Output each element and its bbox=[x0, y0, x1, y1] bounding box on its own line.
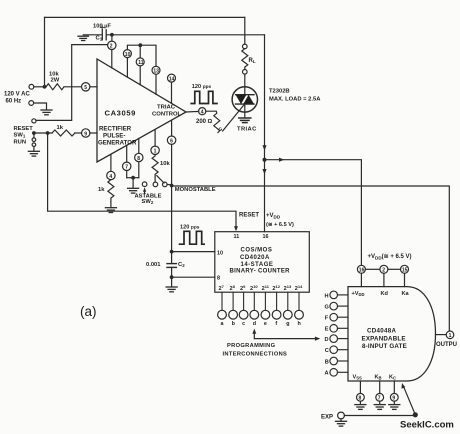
wire: pins 7-8 common bbox=[127, 177, 139, 179]
node: pin2 top junction bbox=[110, 33, 114, 37]
wire: EXP lead bbox=[344, 415, 413, 417]
svg-text:T2302B: T2302B bbox=[269, 89, 290, 95]
node: monostable junction bbox=[170, 184, 174, 188]
wire: pin 10 lead bbox=[172, 251, 215, 253]
svg-text:SeekIC.com: SeekIC.com bbox=[400, 419, 454, 430]
node: junction AC/top loop bbox=[43, 85, 47, 89]
svg-text:1k: 1k bbox=[57, 125, 64, 131]
svg-text:8-INPUT GATE: 8-INPUT GATE bbox=[362, 343, 407, 350]
ground: gate pin 9 bbox=[389, 405, 400, 410]
svg-text:4: 4 bbox=[109, 174, 112, 180]
triac T2302B bbox=[232, 87, 257, 112]
svg-text:G: G bbox=[219, 127, 223, 133]
node: pins 10-11-13 bus bbox=[138, 43, 142, 47]
svg-text:120 V AC: 120 V AC bbox=[4, 92, 30, 98]
triac MT1 bars bbox=[239, 118, 251, 123]
wire: reset line down and across bbox=[48, 133, 236, 228]
svg-text:1k: 1k bbox=[98, 187, 105, 193]
svg-text:CA3059: CA3059 bbox=[105, 109, 136, 118]
capacitor C2 0.001 bbox=[171, 252, 173, 264]
svg-text:120 pps: 120 pps bbox=[180, 225, 200, 231]
svg-text:C2: C2 bbox=[178, 262, 185, 268]
ground: pin 4 bbox=[105, 208, 116, 213]
svg-text:+VDD(≅ + 6.5 V): +VDD(≅ + 6.5 V) bbox=[368, 254, 412, 260]
svg-text:1: 1 bbox=[449, 333, 452, 339]
svg-text:9: 9 bbox=[84, 131, 87, 137]
waveform 120 pps (CA3059 output) bbox=[190, 91, 217, 103]
svg-text:+VDD: +VDD bbox=[352, 291, 365, 297]
svg-text:11: 11 bbox=[234, 234, 240, 240]
svg-text:G: G bbox=[325, 305, 329, 311]
wire: triac gate lead bbox=[223, 105, 245, 131]
switch SW2 astable bbox=[142, 182, 147, 187]
pin 4 (bottom) bbox=[107, 171, 115, 179]
wire: programming interconnection from d bbox=[252, 329, 256, 334]
svg-text:8: 8 bbox=[359, 396, 362, 402]
wire: pin 8 lead bbox=[172, 276, 215, 278]
ground: C2 bbox=[166, 287, 177, 292]
svg-text:EXP: EXP bbox=[321, 415, 333, 421]
svg-text:10: 10 bbox=[125, 52, 131, 58]
gate inputs H..A bbox=[330, 291, 348, 376]
svg-text:TRIAC: TRIAC bbox=[157, 105, 176, 111]
svg-text:TRIAC: TRIAC bbox=[237, 127, 257, 133]
pin 6 bbox=[167, 136, 175, 144]
svg-text:g: g bbox=[286, 321, 289, 327]
svg-text:10: 10 bbox=[217, 251, 223, 257]
svg-text:F: F bbox=[325, 316, 329, 322]
svg-text:e: e bbox=[264, 321, 267, 327]
svg-text:7: 7 bbox=[125, 165, 128, 171]
svg-text:0.001: 0.001 bbox=[146, 262, 161, 268]
svg-text:VSS: VSS bbox=[353, 375, 363, 381]
svg-text:CD4020A: CD4020A bbox=[240, 255, 270, 261]
svg-text:13: 13 bbox=[153, 69, 159, 75]
svg-text:f: f bbox=[275, 321, 277, 327]
terminal EXP bbox=[338, 412, 345, 419]
ground: EXP bbox=[336, 421, 347, 426]
IC U2 CD4020A counter box bbox=[215, 232, 309, 293]
svg-text:PULSE-: PULSE- bbox=[103, 133, 125, 140]
wire: 1k to pin 9 bbox=[75, 132, 82, 134]
svg-text:8: 8 bbox=[137, 156, 140, 162]
terminal: 120 V AC hot bbox=[29, 84, 34, 89]
svg-text:60 Hz: 60 Hz bbox=[6, 99, 22, 105]
svg-text:14: 14 bbox=[169, 76, 175, 82]
pin 14 bbox=[168, 74, 176, 82]
gate top supply circles 16 2 15 bbox=[357, 265, 365, 273]
svg-text:KB: KB bbox=[375, 375, 382, 381]
svg-text:(≅ + 6.5 V): (≅ + 6.5 V) bbox=[266, 222, 294, 228]
node: C2 top junction bbox=[170, 250, 174, 254]
resistor 1k (pin 9) bbox=[52, 130, 75, 136]
wire: right vertical down to RL bbox=[244, 17, 246, 44]
svg-text:MONOSTABLE: MONOSTABLE bbox=[175, 187, 216, 193]
pin 5 bbox=[82, 83, 90, 91]
svg-text:CD4048A: CD4048A bbox=[367, 328, 397, 335]
pin 2 bbox=[108, 41, 116, 49]
resistor 10k 2W bbox=[46, 84, 64, 90]
svg-text:4: 4 bbox=[201, 110, 204, 116]
pin 8 bbox=[135, 153, 143, 161]
svg-text:d: d bbox=[253, 321, 256, 327]
svg-text:16: 16 bbox=[263, 234, 269, 240]
wire: pin 6 down through monostable node to C2 node bbox=[171, 144, 173, 251]
svg-text:9: 9 bbox=[392, 396, 395, 402]
svg-text:100 μF: 100 μF bbox=[93, 24, 111, 30]
node: reset branch bbox=[46, 131, 50, 135]
svg-text:14-STAGE: 14-STAGE bbox=[241, 262, 274, 268]
switch SW1 pole node bbox=[32, 131, 36, 135]
capacitor C1 100uF bbox=[101, 30, 103, 40]
pin 11 bbox=[136, 58, 144, 66]
resistor 10k (pin 1) bbox=[152, 155, 158, 182]
op-amp U1 CA3059 triangle bbox=[97, 59, 186, 162]
svg-text:RECTIFIER: RECTIFIER bbox=[99, 126, 132, 133]
gate bottom pins 8 7 9 bbox=[359, 381, 361, 393]
svg-text:A: A bbox=[325, 371, 329, 377]
svg-text:Kd: Kd bbox=[381, 291, 389, 297]
svg-text:6: 6 bbox=[170, 139, 173, 145]
svg-text:BINARY- COUNTER: BINARY- COUNTER bbox=[230, 268, 291, 274]
svg-text:200 Ω: 200 Ω bbox=[196, 119, 213, 125]
svg-text:10k: 10k bbox=[160, 161, 170, 167]
svg-text:h: h bbox=[298, 321, 301, 327]
svg-text:16: 16 bbox=[359, 268, 365, 274]
svg-text:EXPANDABLE: EXPANDABLE bbox=[362, 335, 406, 342]
resistor 1k (pin 4) bbox=[108, 180, 114, 202]
pin 9 bbox=[82, 129, 90, 137]
IC U3 CD4048A expandable 8-input gate body bbox=[348, 287, 436, 381]
svg-text:B: B bbox=[325, 359, 329, 365]
svg-text:E: E bbox=[325, 327, 329, 333]
svg-text:8: 8 bbox=[217, 276, 220, 282]
svg-text:PROGRAMMING: PROGRAMMING bbox=[227, 343, 276, 349]
svg-text:2: 2 bbox=[110, 44, 113, 50]
wire: top horizontal loop bbox=[45, 16, 245, 18]
svg-text:D: D bbox=[325, 337, 329, 343]
svg-text:COS/MOS: COS/MOS bbox=[241, 248, 273, 254]
svg-text:RESET: RESET bbox=[239, 213, 259, 219]
svg-text:RESET: RESET bbox=[14, 126, 34, 132]
svg-text:C1: C1 bbox=[96, 36, 103, 42]
svg-text:1: 1 bbox=[154, 149, 157, 155]
switch SW1 upper contact bbox=[32, 119, 36, 123]
svg-text:MAX. LOAD = 2.5A: MAX. LOAD = 2.5A bbox=[269, 97, 321, 103]
svg-text:GENERATOR: GENERATOR bbox=[98, 140, 137, 147]
svg-text:SW1: SW1 bbox=[14, 133, 26, 139]
svg-text:2W: 2W bbox=[51, 78, 60, 84]
ground: gate pin 8 bbox=[355, 405, 366, 410]
svg-text:H: H bbox=[325, 293, 329, 299]
wire: to pin 5 bbox=[64, 86, 82, 88]
wire: C1 to VDD rail corner bbox=[107, 34, 265, 36]
ground: gate pin 7 bbox=[374, 405, 385, 410]
svg-text:+VDD: +VDD bbox=[266, 213, 281, 219]
gate output pin 1 bbox=[436, 334, 447, 336]
resistor 200 ohm bbox=[206, 111, 220, 132]
wire: C1 left lead bbox=[83, 34, 102, 36]
switch SW1 lower contacts bbox=[32, 138, 36, 142]
svg-text:120 pps: 120 pps bbox=[192, 84, 212, 90]
wire: EXP arrow to gate bbox=[404, 387, 415, 413]
resistor RL bbox=[243, 44, 248, 49]
pin 1 bbox=[151, 146, 159, 154]
svg-text:11: 11 bbox=[138, 60, 144, 66]
wire: feedback line to gate output bbox=[172, 186, 450, 331]
svg-text:15: 15 bbox=[402, 268, 408, 274]
ground: pins 7-8 bbox=[128, 188, 139, 193]
svg-text:7: 7 bbox=[378, 396, 381, 402]
wire: reset arrow into pin 11 bbox=[234, 226, 238, 231]
waveform 120 pps (counter input) bbox=[179, 231, 205, 244]
pin 7 bbox=[123, 162, 131, 170]
svg-text:INTERCONNECTIONS: INTERCONNECTIONS bbox=[223, 351, 288, 357]
svg-text:OUTPU: OUTPU bbox=[436, 342, 457, 348]
wire: VDD rail from C1 line bbox=[264, 35, 266, 232]
counter output stubs and terminals bbox=[218, 292, 304, 319]
ground: SW1 run bbox=[28, 151, 39, 156]
svg-text:Ka: Ka bbox=[402, 291, 410, 297]
wire: RL to triac bbox=[244, 74, 246, 95]
wire: VDD branch to gate supply bbox=[265, 160, 362, 266]
node: VDD junction at triac branch bbox=[263, 158, 267, 162]
svg-text:5: 5 bbox=[84, 85, 87, 91]
wire: SW1 pole to 1k bbox=[36, 132, 52, 134]
wire: left vertical from AC line to top loop bbox=[44, 17, 46, 86]
ground: AC neutral bbox=[41, 110, 52, 115]
svg-text:c: c bbox=[242, 321, 245, 327]
svg-text:C: C bbox=[325, 348, 329, 354]
svg-text:RUN: RUN bbox=[14, 140, 27, 146]
svg-text:KC: KC bbox=[389, 375, 396, 381]
svg-text:RL: RL bbox=[249, 58, 256, 64]
pin 4 output of CA3059 bbox=[199, 108, 206, 115]
svg-text:2: 2 bbox=[382, 268, 385, 274]
wire: neutral to ground bbox=[34, 103, 47, 110]
svg-text:CONTROL: CONTROL bbox=[152, 111, 182, 117]
pin 10 bbox=[123, 50, 131, 58]
svg-text:SW2: SW2 bbox=[142, 199, 154, 205]
svg-text:(a): (a) bbox=[80, 304, 97, 319]
wire: SW1 contact to pin 2 riser bbox=[36, 45, 108, 121]
pin 13 bbox=[152, 66, 160, 74]
switch: monostable contacts bbox=[153, 182, 158, 187]
node: C2 bottom junction bbox=[170, 275, 174, 279]
terminal: 120 V AC neutral bbox=[29, 101, 34, 106]
ground: C1 bbox=[78, 36, 88, 40]
